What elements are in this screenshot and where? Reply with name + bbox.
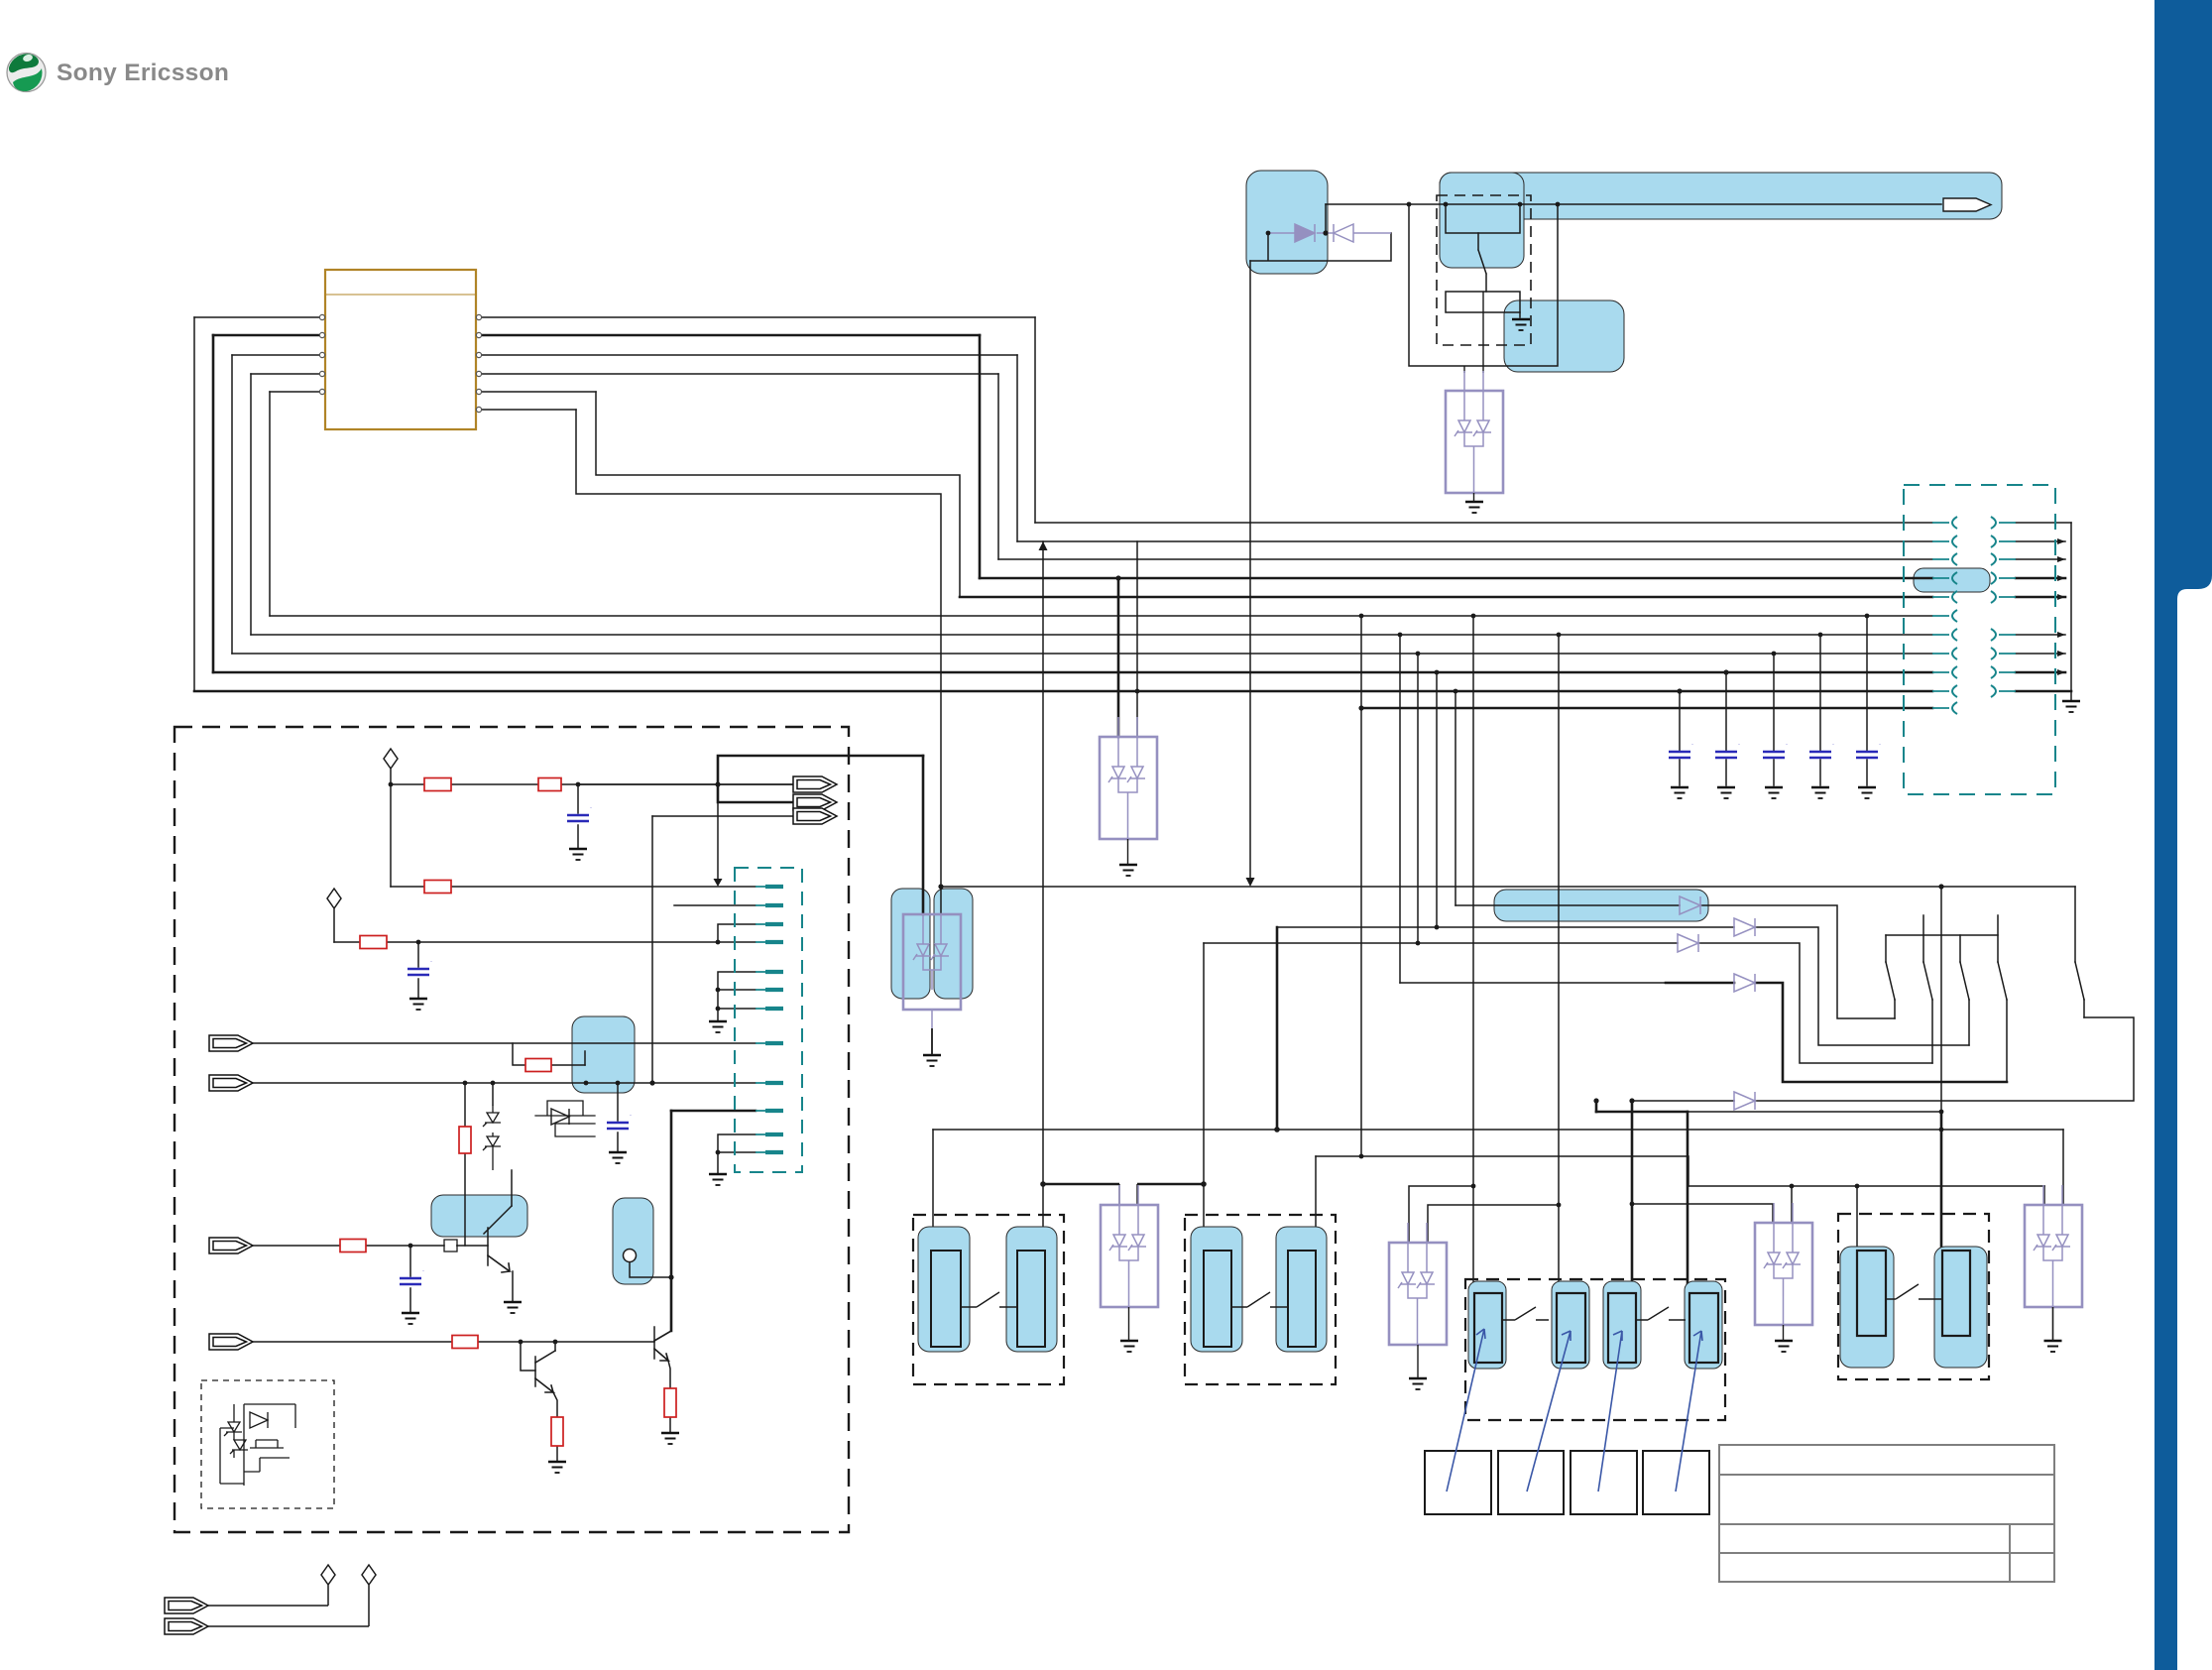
svg-text:Sony Ericsson: Sony Ericsson — [57, 60, 229, 86]
